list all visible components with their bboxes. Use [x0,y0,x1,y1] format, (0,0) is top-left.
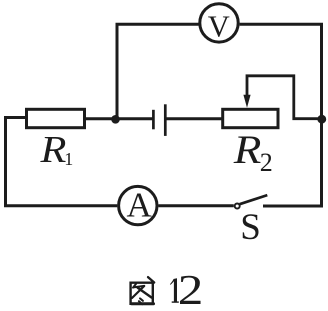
svg-text:2: 2 [260,148,273,177]
svg-text:1: 1 [64,149,73,169]
svg-text:A: A [127,186,153,225]
svg-text:V: V [208,9,230,43]
svg-text:R: R [39,128,66,171]
svg-text:S: S [240,207,261,248]
svg-text:2: 2 [178,267,204,311]
svg-text:R: R [233,128,262,172]
